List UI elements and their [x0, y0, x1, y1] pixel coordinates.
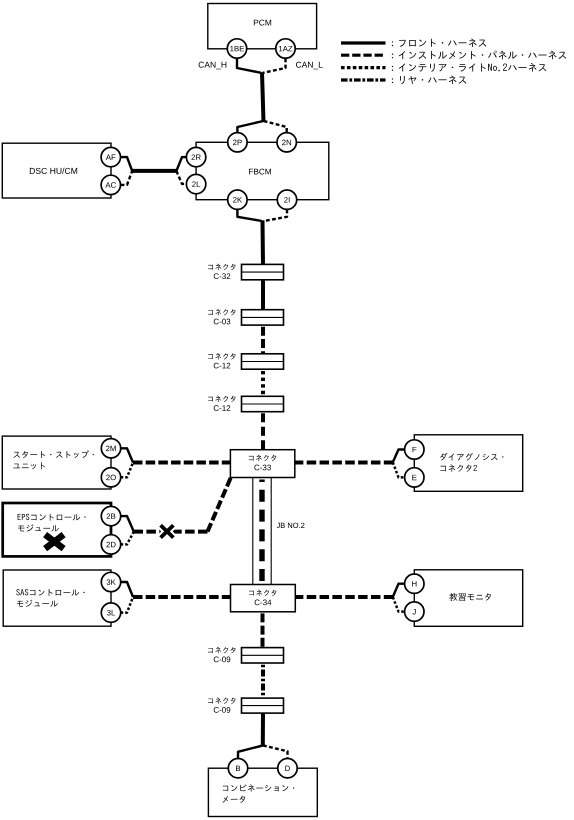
label konekuta C-33: [249, 455, 276, 461]
legend line rear harness: [341, 78, 386, 81]
wire 2O stub (dotted): [121, 463, 133, 478]
label C-12a: [214, 363, 231, 369]
wire C-03 to C-12 (instrument panel harness): [261, 327, 265, 354]
EPS label line1: [18, 514, 86, 521]
wire trunk fan to 2P (solid): [237, 121, 263, 133]
connector D: [278, 759, 297, 778]
connector C-09 lower: [242, 698, 284, 713]
connector 2I: [277, 190, 296, 209]
legend line interior light No.2 harness: [341, 66, 386, 69]
JB NO.2 pass-through left wall: [252, 478, 254, 585]
FBCM box: [196, 142, 329, 199]
EPS control module box (inoperative): [3, 503, 111, 556]
connector 3L: [101, 603, 120, 622]
legend text rear harness: [392, 75, 466, 84]
legend line instrument panel harness: [341, 54, 386, 57]
label konekuta C-34: [249, 590, 276, 596]
connector C-03: [242, 310, 284, 325]
SAS label line2: [17, 600, 58, 607]
connector C-32: [242, 264, 284, 279]
combination meter label line1: [223, 784, 295, 791]
connector AF: [101, 147, 120, 166]
connector 1AZ: [276, 39, 295, 58]
label C-09b: [214, 707, 231, 713]
label konekuta C-12a: [208, 353, 235, 359]
connector 2O: [101, 468, 120, 487]
CAN_L label: [296, 62, 323, 70]
wire trunk FBCM to C-32 (front harness): [261, 220, 266, 265]
connector 3K: [101, 572, 120, 591]
wire C-12 to C-12 (interior light No.2 harness): [261, 371, 265, 396]
connector 1BE: [227, 39, 246, 58]
SAS label line1: [16, 589, 84, 596]
combination meter label line2: [223, 796, 246, 803]
JB NO.2 pass-through right wall: [270, 478, 272, 585]
label konekuta C-09b: [208, 697, 235, 703]
legend text front harness: [392, 38, 486, 47]
connector 2B: [101, 506, 120, 525]
wire C-33 to diagnosis (instrument panel harness): [281, 461, 393, 465]
label C-03: [214, 319, 231, 325]
wire fan to D (dashed): [263, 745, 288, 759]
connector B: [228, 759, 247, 778]
label C-32: [214, 273, 231, 279]
wire 2D stub (dotted): [121, 532, 134, 545]
wire C-32 to C-03 (front harness): [261, 280, 265, 310]
wire C-09 to C-09 (rear harness): [261, 665, 265, 698]
wire SAS to C-34 (instrument panel harness): [133, 595, 244, 599]
FBCM label: [249, 169, 271, 175]
PCM box: [208, 4, 317, 49]
connector C-12 lower: [242, 396, 284, 411]
wire 3L stub (dotted): [121, 597, 133, 613]
JB NO.2 label: [277, 523, 305, 528]
EPS inoperative X mark: [45, 535, 64, 549]
start-stop unit label line2: [13, 462, 45, 469]
wire fan to B (solid): [238, 745, 263, 759]
connector J: [405, 602, 424, 621]
connector C-33 box: [230, 450, 294, 478]
diagnosis connector 2 box: [414, 435, 522, 492]
connector 2M: [101, 439, 120, 458]
wire trunk PCM to FBCM (front harness): [262, 72, 264, 122]
wire 1BE CAN_H stub (solid): [237, 58, 261, 72]
connector 2K: [228, 190, 247, 209]
wire F stub (solid): [393, 450, 405, 463]
connector F: [405, 440, 424, 459]
wire fan to 2L (dashed): [176, 171, 186, 184]
start-stop unit box: [2, 436, 111, 489]
DSC HU/CM label: [30, 168, 77, 174]
combination meter box: [208, 768, 317, 816]
training monitor box: [414, 570, 522, 627]
label C-12b: [214, 405, 231, 411]
connector 2R: [186, 147, 205, 166]
wire AF stub (solid): [121, 157, 133, 171]
connector 2L: [186, 174, 205, 193]
label konekuta C-03: [208, 309, 235, 315]
training monitor label: [449, 593, 491, 601]
wire AC stub (dashed): [121, 171, 133, 185]
wire trunk DSC to FBCM (front harness): [132, 169, 177, 173]
EPS label line2: [18, 524, 59, 531]
start-stop unit label line1: [13, 450, 93, 458]
connector AC: [101, 175, 120, 194]
wire 2I stub (dashed): [265, 210, 288, 221]
wire EPS to C-33 horizontal (instrument panel harness): [134, 530, 208, 534]
connector E: [405, 468, 424, 487]
wire J stub (dotted): [393, 597, 405, 612]
wire trunk fan to 2N (dashed): [264, 121, 287, 133]
wire 1AZ CAN_L stub (dashed): [263, 58, 286, 72]
connector 2P: [228, 133, 247, 152]
label konekuta C-32: [208, 264, 235, 270]
wire C-12 to C-33 (instrument panel harness): [261, 413, 265, 449]
wire 2K stub (solid): [237, 210, 261, 221]
PCM label: [254, 20, 271, 26]
DSC HU/CM box: [2, 143, 111, 198]
connector C-34 box: [231, 585, 296, 612]
wire C-09 to meter trunk (front harness): [261, 713, 265, 746]
CAN_H label: [199, 62, 227, 70]
legend line front harness: [341, 41, 386, 44]
label konekuta C-12b: [208, 396, 235, 402]
SAS control module box: [3, 570, 111, 626]
connector C-12 upper: [242, 354, 284, 369]
wire C-34 to C-09 (instrument panel harness): [261, 613, 265, 647]
connector H: [405, 574, 424, 593]
wire C-34 to monitor (instrument panel harness): [281, 595, 393, 599]
diagnosis label line2: [440, 464, 477, 471]
legend text interior light harness: [392, 63, 546, 72]
connector 2D: [101, 535, 120, 554]
wire fan to 2R (solid): [176, 157, 186, 171]
label C-09a: [214, 657, 231, 663]
label konekuta C-09a: [208, 647, 235, 653]
wire E stub (dotted): [393, 462, 405, 477]
connector 2N: [277, 133, 296, 152]
wire EPS to C-33 diagonal (instrument panel harness): [208, 478, 231, 532]
diagnosis label line1: [440, 453, 503, 461]
wire start-stop to C-33 (instrument panel harness): [133, 461, 244, 465]
label C-34: [255, 600, 272, 606]
wire 2B stub (solid): [121, 516, 134, 532]
wire H stub (solid): [393, 584, 405, 597]
wire 2M stub (solid): [121, 448, 133, 462]
wire C-33 to C-34 through JB NO.2 (instrument panel harness): [259, 480, 264, 585]
connector C-09 upper: [242, 648, 284, 663]
label C-33: [254, 465, 271, 471]
open circuit X splice mark: [161, 525, 174, 537]
wire 3K stub (solid): [121, 582, 133, 597]
legend text instrument panel harness: [392, 51, 566, 60]
